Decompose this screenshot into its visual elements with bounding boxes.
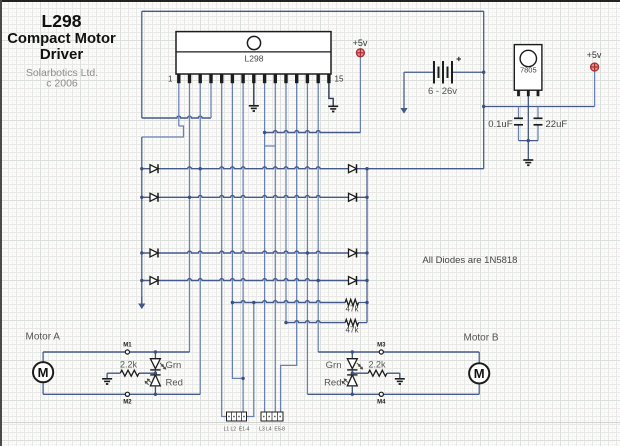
svg-text:L3 L4 E5-8: L3 L4 E5-8	[259, 427, 285, 433]
svg-text:7805: 7805	[520, 66, 537, 75]
svg-text:L1 L2 E1-4: L1 L2 E1-4	[224, 427, 250, 433]
svg-text:All Diodes are 1N5818: All Diodes are 1N5818	[422, 255, 517, 266]
svg-text:2.2k: 2.2k	[120, 360, 138, 370]
svg-text:Red: Red	[324, 378, 341, 389]
svg-text:47k: 47k	[346, 305, 360, 314]
svg-text:M2: M2	[123, 400, 132, 406]
svg-text:Motor B: Motor B	[464, 333, 499, 344]
svg-text:0.1uF: 0.1uF	[488, 119, 512, 130]
svg-text:Motor A: Motor A	[26, 332, 61, 343]
svg-text:M3: M3	[377, 343, 386, 349]
svg-text:15: 15	[335, 75, 344, 84]
svg-text:c 2006: c 2006	[46, 78, 78, 90]
svg-text:M: M	[474, 366, 485, 381]
svg-text:L298: L298	[42, 11, 82, 31]
svg-text:M1: M1	[123, 343, 132, 349]
svg-text:+5v: +5v	[587, 50, 602, 60]
svg-text:6 - 26v: 6 - 26v	[428, 86, 457, 97]
svg-text:L298: L298	[245, 54, 264, 64]
svg-text:M4: M4	[377, 400, 386, 406]
svg-text:Compact Motor: Compact Motor	[7, 31, 116, 47]
svg-text:M: M	[38, 365, 49, 380]
svg-text:2.2k: 2.2k	[368, 360, 386, 370]
svg-text:+5v: +5v	[353, 38, 368, 48]
svg-text:47k: 47k	[346, 326, 360, 335]
svg-text:1: 1	[168, 75, 173, 84]
svg-text:Driver: Driver	[40, 46, 84, 63]
svg-text:Grn: Grn	[326, 360, 342, 371]
svg-text:Grn: Grn	[166, 360, 182, 371]
svg-text:22uF: 22uF	[546, 119, 568, 130]
svg-text:Red: Red	[166, 378, 183, 389]
